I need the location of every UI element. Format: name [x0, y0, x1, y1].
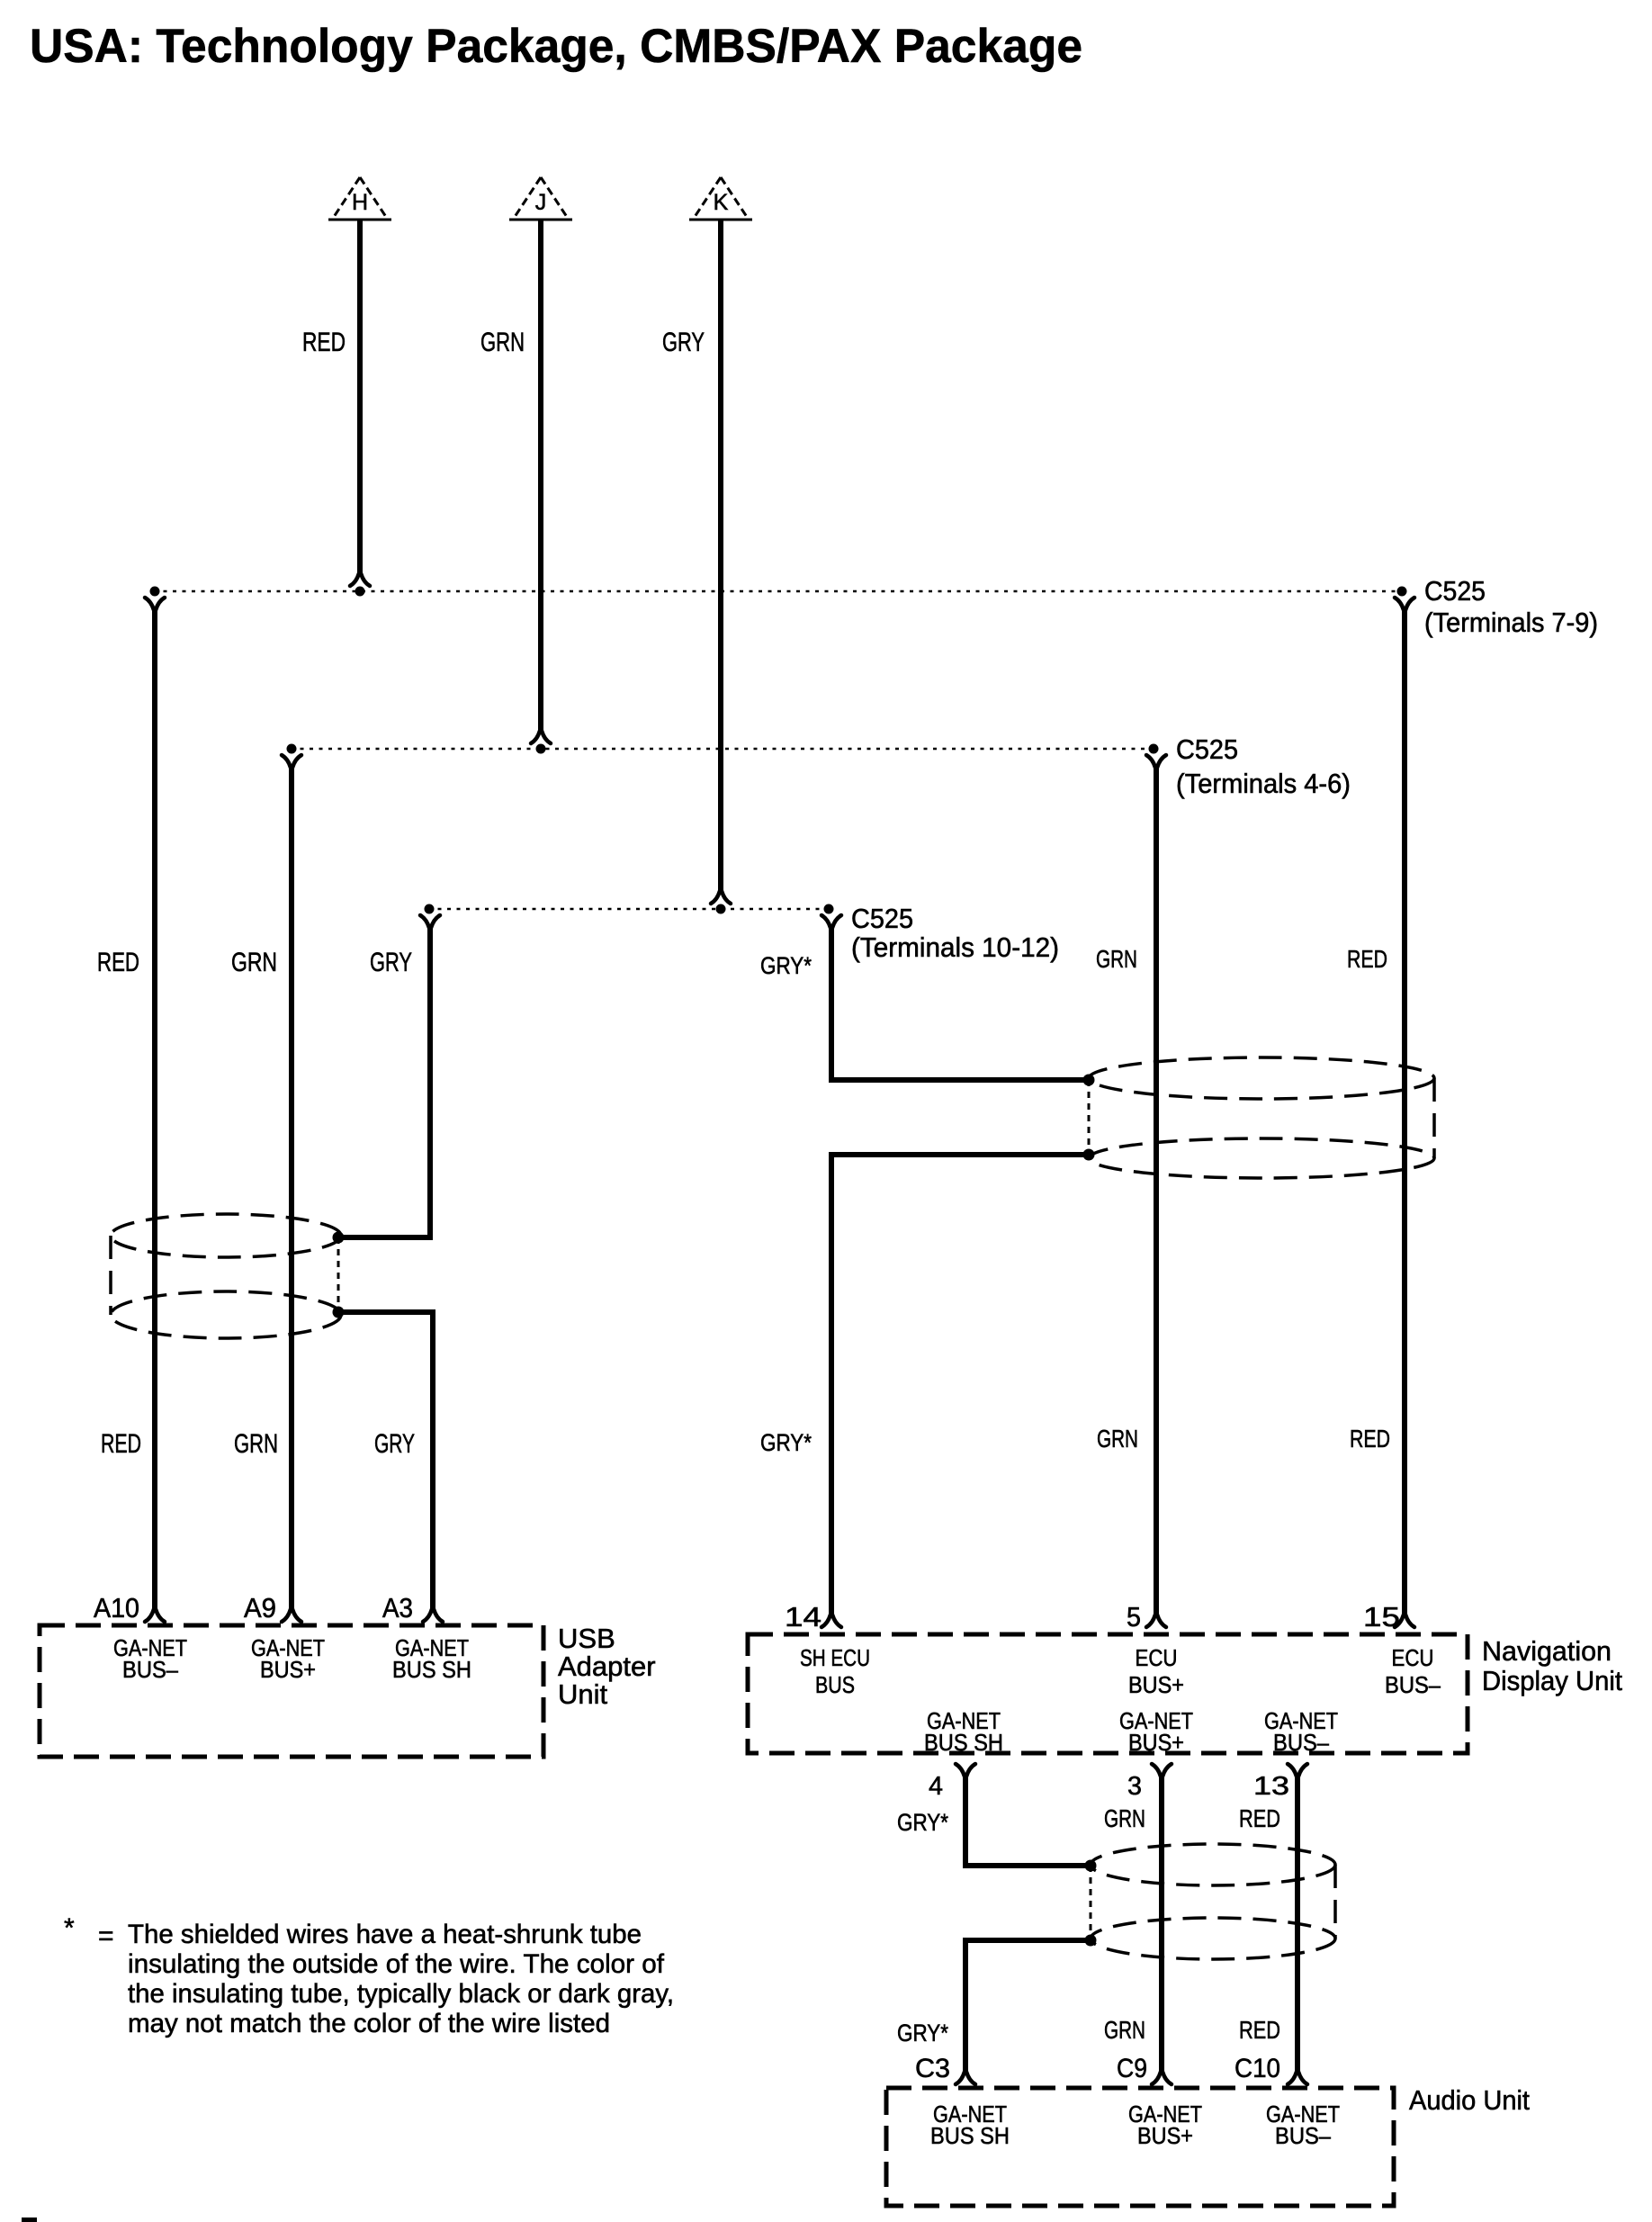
- node shield bottom top: [1085, 1860, 1097, 1872]
- svg-text:5: 5: [1127, 1601, 1141, 1633]
- svg-text:3: 3: [1127, 1772, 1142, 1801]
- svg-text:RED: RED: [1239, 1804, 1280, 1832]
- label ECU BUS+: [1128, 1644, 1184, 1698]
- svg-text:A9: A9: [244, 1592, 276, 1624]
- svg-text:BUS–: BUS–: [122, 1656, 178, 1683]
- label GA-NET BUS- (nav): [1264, 1707, 1338, 1756]
- shield (bottom) around GRN and RED wires: [1091, 1844, 1335, 1959]
- svg-text:USB: USB: [558, 1623, 615, 1654]
- wire H (RED) from triangle H to C525 terminals 7-9: [350, 220, 370, 586]
- svg-text:GRY*: GRY*: [897, 2020, 948, 2047]
- label ECU BUS-: [1385, 1644, 1441, 1698]
- svg-text:H: H: [352, 190, 368, 215]
- svg-text:BUS+: BUS+: [260, 1656, 316, 1683]
- page artifact mark (scan): [22, 2218, 37, 2222]
- svg-text:RED: RED: [1347, 945, 1387, 973]
- wire GRY* (navigation 4 to shield to audio C3): [956, 1764, 1091, 2084]
- connector C525 (terminals 10-12) boundary dotted line: [428, 908, 829, 911]
- wire GRY left (C525 down to shield, then to USB adapter A3): [338, 915, 443, 1622]
- label GA-NET BUS SH (audio): [930, 2101, 1010, 2149]
- svg-text:GRN: GRN: [234, 1429, 278, 1459]
- svg-text:The shielded wires have a heat: The shielded wires have a heat-shrunk tu…: [128, 1920, 642, 1949]
- svg-text:BUS+: BUS+: [1137, 2122, 1193, 2149]
- navigation display unit box: [748, 1634, 1468, 1753]
- svg-text:GRY: GRY: [374, 1429, 415, 1459]
- label SH ECU BUS: [800, 1644, 870, 1698]
- svg-text:RED: RED: [97, 948, 139, 977]
- svg-text:SH ECU: SH ECU: [800, 1644, 870, 1671]
- connector triangle J: [509, 177, 572, 220]
- svg-text:USA: Technology Package, CMBS/: USA: Technology Package, CMBS/PAX Packag…: [30, 20, 1082, 73]
- label USB Adapter Unit: [558, 1623, 656, 1710]
- wire J (GRN) from triangle J to C525 terminals 4-6: [531, 220, 551, 743]
- audio unit box: [886, 2088, 1394, 2206]
- wire GRY* right (C525 to shield to navigation 14): [822, 915, 1089, 1627]
- svg-text:*: *: [64, 1913, 75, 1943]
- svg-text:GRN: GRN: [1097, 1425, 1138, 1453]
- svg-text:C525: C525: [851, 903, 913, 934]
- svg-text:ECU: ECU: [1392, 1644, 1434, 1671]
- svg-text:may not match the color of the: may not match the color of the wire list…: [128, 2009, 610, 2038]
- svg-text:C10: C10: [1235, 2054, 1280, 2083]
- svg-text:Navigation: Navigation: [1482, 1635, 1612, 1667]
- label C525 (Terminals 10-12): [851, 903, 1059, 963]
- node shield right top: [1083, 1075, 1095, 1086]
- svg-text:GRY*: GRY*: [897, 1809, 948, 1836]
- label GA-NET BUS- (USB): [113, 1634, 187, 1683]
- svg-text:C9: C9: [1117, 2054, 1147, 2083]
- wire shield jumper (left): [337, 1237, 340, 1312]
- svg-text:GRY*: GRY*: [760, 1429, 812, 1456]
- svg-text:A10: A10: [94, 1592, 139, 1624]
- svg-text:4: 4: [929, 1772, 943, 1801]
- label GA-NET BUS- (audio): [1266, 2101, 1340, 2149]
- svg-text:BUS–: BUS–: [1275, 2122, 1331, 2149]
- svg-text:insulating the outside of the: insulating the outside of the wire. The …: [128, 1949, 665, 1979]
- label Navigation Display Unit: [1482, 1635, 1622, 1696]
- svg-text:BUS+: BUS+: [1128, 1671, 1184, 1698]
- svg-text:14: 14: [785, 1601, 822, 1633]
- node shield left top: [333, 1232, 345, 1244]
- node at C525 pin (right, RED): [1397, 587, 1407, 597]
- svg-text:Display Unit: Display Unit: [1482, 1665, 1622, 1696]
- svg-text:BUS SH: BUS SH: [924, 1729, 1003, 1756]
- svg-text:RED: RED: [101, 1429, 141, 1459]
- svg-text:A3: A3: [382, 1592, 413, 1624]
- node shield right bottom: [1083, 1149, 1095, 1161]
- svg-text:GRN: GRN: [1104, 1804, 1145, 1832]
- svg-text:BUS–: BUS–: [1273, 1729, 1329, 1756]
- wire shield jumper (bottom): [1090, 1866, 1092, 1940]
- wire K (GRY) from triangle K to C525 terminals 10-12: [711, 220, 731, 904]
- wire RED (navigation 13 to audio C10): [1288, 1764, 1307, 2084]
- svg-text:J: J: [535, 190, 547, 215]
- USB adapter unit box: [40, 1625, 543, 1757]
- svg-text:RED: RED: [1350, 1425, 1390, 1453]
- svg-text:Adapter: Adapter: [558, 1651, 656, 1682]
- svg-text:C525: C525: [1176, 733, 1238, 765]
- node at C525 pin (wire J): [536, 744, 546, 754]
- label GA-NET BUS+ (audio): [1128, 2101, 1202, 2149]
- svg-text:RED: RED: [302, 328, 346, 357]
- svg-text:BUS: BUS: [815, 1671, 855, 1698]
- node at C525 pin (left, GRN): [287, 744, 297, 754]
- svg-text:GRN: GRN: [1096, 945, 1137, 973]
- svg-text:=: =: [98, 1921, 114, 1951]
- label GA-NET BUS+ (USB): [251, 1634, 325, 1683]
- node shield left bottom: [333, 1307, 345, 1318]
- shield (right) around GRN and RED wires: [1089, 1057, 1434, 1178]
- wire RED left (C525 to USB adapter A10): [145, 598, 165, 1622]
- svg-text:Audio Unit: Audio Unit: [1409, 2084, 1530, 2116]
- node at C525 pin (right, GRN): [1149, 744, 1159, 754]
- svg-text:GRY: GRY: [662, 328, 705, 357]
- footnote: [64, 1913, 674, 2038]
- shield (left) around RED and GRN wires: [111, 1214, 341, 1338]
- node at C525 pin (wire H): [355, 587, 365, 597]
- svg-text:(Terminals 7-9): (Terminals 7-9): [1424, 607, 1598, 638]
- svg-text:(Terminals 4-6): (Terminals 4-6): [1176, 768, 1351, 799]
- node shield bottom bottom: [1085, 1935, 1097, 1947]
- svg-text:K: K: [714, 190, 729, 215]
- svg-text:BUS SH: BUS SH: [930, 2122, 1010, 2149]
- svg-text:Unit: Unit: [558, 1678, 608, 1710]
- connector triangle H: [328, 177, 391, 220]
- node at C525 pin (wire K): [716, 904, 726, 914]
- svg-text:(Terminals 10-12): (Terminals 10-12): [851, 931, 1059, 963]
- wire GRN (navigation 3 to audio C9): [1152, 1764, 1172, 2084]
- svg-text:GRN: GRN: [1104, 2016, 1145, 2044]
- connector C525 (terminals 4-6) boundary dotted line: [291, 748, 1154, 751]
- label C525 (Terminals 4-6): [1176, 733, 1351, 799]
- node at C525 pin (right, GRY*): [824, 904, 834, 914]
- node at C525 pin (left, GRY): [425, 904, 435, 914]
- svg-text:BUS SH: BUS SH: [392, 1656, 471, 1683]
- wire shield jumper (right): [1088, 1080, 1091, 1155]
- svg-text:the insulating tube, typically: the insulating tube, typically black or …: [128, 1979, 674, 2009]
- svg-text:C525: C525: [1424, 575, 1486, 607]
- wire RED right (C525 to navigation 15): [1395, 598, 1414, 1627]
- svg-text:13: 13: [1253, 1772, 1289, 1801]
- connector triangle K: [689, 177, 752, 220]
- label GA-NET BUS+ (nav): [1119, 1707, 1193, 1756]
- connector C525 (terminals 7-9) boundary dotted line: [154, 590, 1402, 593]
- svg-text:BUS–: BUS–: [1385, 1671, 1441, 1698]
- wire GRN right (C525 to navigation 5): [1146, 755, 1166, 1627]
- svg-text:BUS+: BUS+: [1128, 1729, 1184, 1756]
- label C525 (Terminals 7-9): [1424, 575, 1598, 638]
- svg-text:C3: C3: [915, 2054, 950, 2083]
- label GA-NET BUS SH (USB): [392, 1634, 471, 1683]
- svg-text:GRY: GRY: [370, 948, 412, 977]
- svg-text:GRN: GRN: [480, 328, 525, 357]
- wire GRN left (C525 to USB adapter A9): [282, 755, 301, 1622]
- svg-text:GRN: GRN: [231, 948, 277, 977]
- svg-text:15: 15: [1363, 1601, 1400, 1633]
- svg-text:ECU: ECU: [1136, 1644, 1178, 1671]
- svg-text:RED: RED: [1239, 2016, 1280, 2044]
- node at C525 pin (left, RED): [150, 587, 160, 597]
- svg-text:GRY*: GRY*: [760, 952, 812, 979]
- label GA-NET BUS SH (nav): [924, 1707, 1003, 1756]
